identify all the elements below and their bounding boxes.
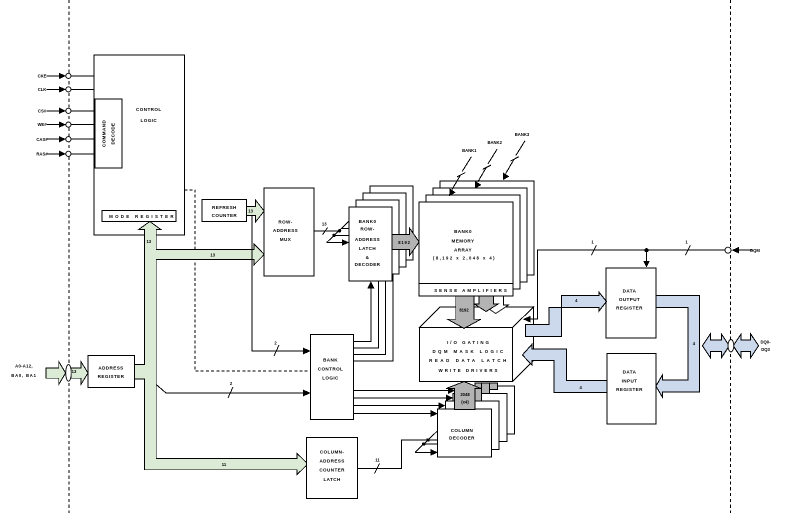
svg-text:DQM MASK LOGIC: DQM MASK LOGIC [432, 349, 505, 354]
DQ bidirectional arrow (outer) [733, 334, 758, 358]
svg-text:ADDRESS: ADDRESS [273, 228, 298, 233]
svg-text:BANK0: BANK0 [359, 219, 377, 224]
svg-text:COLUMN: COLUMN [451, 428, 474, 433]
gray data path arrows from sense amplifiers into I/O gating [448, 296, 509, 329]
svg-text:I/O GATING: I/O GATING [447, 340, 491, 345]
svg-text:REGISTER: REGISTER [616, 305, 643, 310]
bank address line 2 (upper) into bank control logic [252, 215, 311, 356]
svg-text:13: 13 [210, 252, 215, 257]
refresh counter box [202, 200, 247, 222]
column-address counter latch box [307, 437, 358, 498]
svg-text:(x4): (x4) [461, 400, 469, 405]
input signal CS# [38, 108, 95, 114]
green address input arrow (into address register) [71, 362, 88, 385]
svg-text:REGISTER: REGISTER [616, 387, 643, 392]
svg-text:DECODER: DECODER [355, 262, 381, 267]
row-address mux box [264, 188, 314, 276]
svg-text:(8,192 x 2,048 x 4): (8,192 x 2,048 x 4) [433, 256, 496, 261]
bank row-address latch & decoder stack (4 banks) [370, 186, 413, 260]
svg-text:LOGIC: LOGIC [322, 375, 339, 380]
DQ pad ellipse on dashed line [728, 340, 734, 352]
svg-text:COLUMN-: COLUMN- [320, 449, 345, 454]
svg-text:BANK1: BANK1 [462, 148, 477, 153]
svg-text:BANK: BANK [323, 357, 338, 362]
bank memory array stack (4 banks) [440, 181, 534, 275]
svg-text:LATCH: LATCH [359, 246, 377, 251]
input signal CAS# [36, 136, 94, 142]
svg-text:REFRESH: REFRESH [212, 205, 237, 210]
svg-text:BANK2: BANK2 [487, 140, 502, 145]
svg-text:2048: 2048 [460, 392, 470, 397]
svg-text:REGISTER: REGISTER [98, 374, 125, 379]
DQM mask line to I/O gating and output register [523, 240, 725, 323]
svg-text:DECODER: DECODER [449, 435, 475, 440]
green address bus network (to mode register, row-address mux, column latch) [134, 222, 308, 475]
svg-text:WE#: WE# [37, 122, 47, 127]
green address input arrow (left of pad) [46, 362, 66, 385]
svg-text:COUNTER: COUNTER [319, 468, 345, 473]
svg-text:CONTROL: CONTROL [136, 107, 162, 112]
svg-text:LATCH: LATCH [323, 477, 341, 482]
gray column select strip (bank2) [482, 383, 490, 395]
svg-text:13: 13 [146, 239, 151, 244]
svg-text:ARRAY: ARRAY [454, 247, 472, 252]
svg-text:COUNTER: COUNTER [212, 213, 238, 218]
svg-text:OUTPUT: OUTPUT [619, 297, 640, 302]
svg-text:8192: 8192 [398, 240, 411, 245]
svg-text:DECODE: DECODE [111, 122, 116, 144]
svg-text:ROW-: ROW- [278, 219, 292, 224]
svg-text:13: 13 [72, 369, 77, 374]
DQ0-DQ3 labels [760, 340, 771, 353]
svg-text:13: 13 [248, 209, 253, 214]
svg-text:BANK0: BANK0 [454, 229, 472, 234]
right dashed boundary line [730, 0, 732, 513]
svg-text:READ DATA LATCH: READ DATA LATCH [429, 358, 509, 363]
svg-text:11: 11 [222, 462, 227, 467]
DQM entry arrow and label [732, 247, 761, 254]
gray column select arrow 2048 (x4) into I/O gating [446, 382, 481, 410]
svg-text:CONTROL: CONTROL [318, 366, 344, 371]
svg-text:COMMAND: COMMAND [102, 120, 107, 148]
gray column select strip (bank3) [490, 383, 498, 390]
svg-text:ADDRESS: ADDRESS [355, 237, 380, 242]
mode register box [102, 211, 176, 222]
svg-text:CLK: CLK [38, 87, 47, 92]
data output register box [606, 268, 656, 338]
address input labels A0-A12, BA0, BA1 [11, 363, 36, 378]
svg-text:8192: 8192 [459, 308, 469, 313]
svg-text:MODE REGISTER: MODE REGISTER [109, 214, 176, 219]
svg-text:ROW-: ROW- [360, 227, 374, 232]
svg-text:SENSE AMPLIFIERS: SENSE AMPLIFIERS [434, 288, 509, 293]
input signal CLK [38, 86, 95, 92]
svg-text:BANK3: BANK3 [515, 132, 530, 137]
data input register box [607, 353, 656, 424]
blue DQ loop band output register to DQ pads to input register (4) [656, 296, 700, 398]
svg-text:11: 11 [375, 458, 380, 463]
bank select lightning arrows BANK1 BANK2 BANK3 [450, 148, 477, 195]
svg-text:ADDRESS: ADDRESS [98, 366, 123, 371]
svg-text:A0-A12,: A0-A12, [15, 363, 33, 368]
blue write data band data input register to I/O gating (4) [522, 344, 607, 393]
command decode box [95, 99, 122, 168]
input signal WE# [37, 122, 94, 128]
svg-text:ADDRESS: ADDRESS [319, 459, 344, 464]
gray arrow 8192 row decode into memory array [392, 228, 419, 256]
bank control to row-address latch select lines [354, 274, 393, 361]
svg-text:CAS#: CAS# [36, 137, 48, 142]
bank address line 2 (lower) into bank control logic [156, 381, 310, 398]
column decoder stack (4 banks) [461, 386, 515, 434]
svg-text:DQ3: DQ3 [761, 347, 770, 352]
svg-text:MUX: MUX [280, 237, 292, 242]
DQM input pad circle [725, 247, 731, 253]
svg-text:DATA: DATA [623, 289, 637, 294]
column latch to column decoder fan (11) [358, 430, 439, 474]
svg-text:CKE: CKE [38, 74, 47, 79]
input signal RAS# [36, 151, 94, 157]
svg-text:RAS#: RAS# [36, 151, 48, 156]
svg-text:CS#: CS# [38, 108, 47, 113]
blue read data band I/O gating to data output register (4) [525, 292, 606, 337]
green arrow refresh counter to row-address mux [247, 200, 265, 222]
svg-text:&: & [366, 255, 370, 260]
svg-text:DQM: DQM [750, 248, 760, 253]
bank control to column decoder select lines [354, 387, 455, 417]
gray column select strip (bank1) [475, 383, 482, 403]
svg-text:DATA: DATA [623, 370, 637, 375]
svg-text:DQ0-: DQ0- [760, 340, 771, 345]
row mux to row-address latch fan (13) [314, 221, 350, 246]
dashed path from control logic to bank control logic [185, 190, 311, 371]
svg-text:WRITE DRIVERS: WRITE DRIVERS [439, 368, 500, 373]
svg-text:INPUT: INPUT [622, 379, 638, 384]
address register box [88, 356, 134, 388]
svg-text:LOGIC: LOGIC [141, 118, 158, 123]
svg-text:MEMORY: MEMORY [452, 238, 475, 243]
control logic block [94, 55, 185, 235]
input signal CKE [38, 73, 95, 79]
svg-text:13: 13 [322, 221, 327, 226]
left dashed boundary line [68, 0, 70, 513]
DQ bidirectional arrow (inner) [702, 334, 729, 358]
address pad ellipse on dashed line [66, 365, 72, 382]
svg-text:BA0, BA1: BA0, BA1 [11, 373, 36, 378]
I/O gating / DQM mask logic 3D box [419, 307, 533, 381]
bank control logic box [311, 335, 354, 420]
